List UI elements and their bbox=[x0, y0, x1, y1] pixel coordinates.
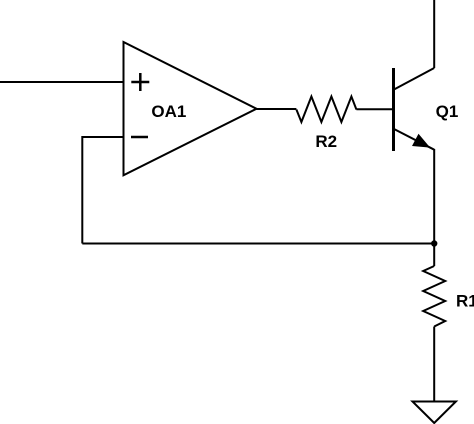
wire input to non-inverting input bbox=[0, 81, 124, 83]
transistor Q1 bbox=[394, 68, 435, 151]
wire R2 to base of Q1 bbox=[356, 108, 393, 110]
wire node to R1 bbox=[433, 244, 435, 267]
wire feedback horizontal to node bbox=[82, 243, 434, 245]
wire op-amp output to R2 bbox=[257, 108, 297, 110]
op-amp OA1 bbox=[124, 42, 257, 175]
node junction dot bbox=[431, 240, 437, 246]
svg-text:Q1: Q1 bbox=[436, 102, 459, 121]
resistor R1 bbox=[423, 266, 445, 327]
svg-text:R2: R2 bbox=[315, 132, 337, 151]
ground bbox=[413, 402, 456, 424]
svg-text:R1: R1 bbox=[456, 292, 474, 311]
resistor R2 bbox=[296, 97, 356, 123]
wire collector up to top edge bbox=[433, 0, 435, 68]
svg-text:OA1: OA1 bbox=[151, 102, 186, 121]
wire feedback vertical bbox=[81, 136, 83, 244]
wire R1 to ground bbox=[433, 327, 435, 402]
wire inverting input stub bbox=[82, 136, 123, 138]
wire emitter down to node bbox=[433, 149, 435, 244]
